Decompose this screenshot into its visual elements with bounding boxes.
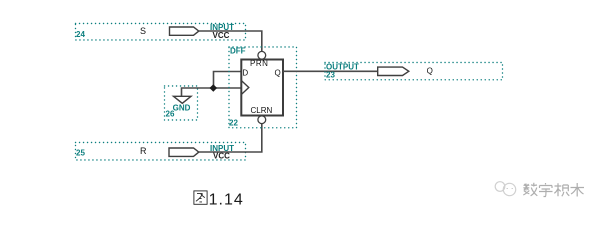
input pin S : selection box	[76, 24, 246, 41]
svg-text:CLRN: CLRN	[251, 106, 273, 115]
wire Q to output	[283, 70, 378, 72]
gnd symbol : selection box	[165, 86, 198, 120]
caption figure number: CJK 图 drawn as strokes	[194, 191, 207, 204]
flip-flop body	[241, 60, 283, 116]
input pin S : connector symbol	[170, 27, 199, 35]
svg-text:GND: GND	[173, 103, 191, 112]
svg-text:24: 24	[76, 30, 85, 39]
watermark text 数字积木 drawn as strokes	[523, 183, 584, 197]
wire gnd to clock	[182, 88, 242, 96]
clock triangle	[241, 81, 249, 95]
svg-text:D: D	[242, 68, 248, 77]
wire from R to CLRN bubble	[199, 124, 262, 152]
svg-text:VCC: VCC	[213, 31, 230, 40]
junction dot	[210, 84, 218, 92]
木	[571, 183, 585, 197]
input pin R : connector symbol	[169, 148, 199, 156]
svg-text:Q: Q	[275, 68, 281, 77]
svg-text:1.14: 1.14	[209, 191, 244, 208]
CLRN bubble	[258, 116, 266, 124]
svg-text:23: 23	[326, 71, 335, 80]
字	[539, 183, 553, 197]
input pin R : selection box	[76, 143, 246, 161]
svg-text:VCC: VCC	[213, 152, 230, 161]
ground triangle	[174, 96, 192, 103]
积	[554, 183, 569, 196]
output pin Q : connector symbol	[378, 67, 409, 75]
svg-text:Q: Q	[427, 67, 433, 76]
output pin Q : selection box	[325, 63, 503, 80]
wire from S to PRN bubble	[199, 31, 262, 52]
svg-text:PRN: PRN	[250, 59, 268, 68]
svg-text:25: 25	[76, 149, 85, 158]
PRN bubble	[258, 51, 266, 59]
watermark logo circles	[495, 182, 516, 196]
数	[523, 183, 537, 196]
svg-text:R: R	[140, 146, 147, 156]
svg-text:S: S	[140, 26, 146, 36]
flip-flop U : selection box	[229, 47, 297, 128]
svg-text:26: 26	[166, 109, 175, 118]
svg-text:22: 22	[229, 119, 238, 128]
wire D branch	[214, 72, 242, 89]
svg-text:DFF: DFF	[230, 47, 246, 56]
